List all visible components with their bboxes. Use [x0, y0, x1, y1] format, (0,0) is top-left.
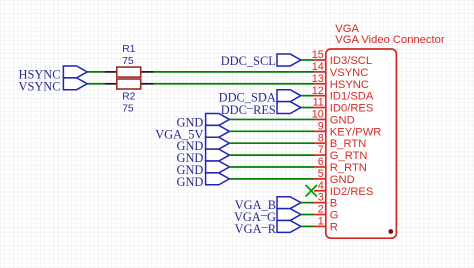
- svg-text:VSYNC: VSYNC: [330, 67, 369, 79]
- connector body (VGA video connector): [326, 49, 397, 238]
- svg-text:KEY/PWR: KEY/PWR: [330, 126, 382, 138]
- wire VGA_R to pin 1: [301, 225, 314, 227]
- port VGA_5V pin9: [206, 125, 230, 137]
- svg-text:75: 75: [122, 103, 134, 114]
- resistor R1 leads: [105, 71, 117, 73]
- svg-text:14: 14: [312, 61, 324, 73]
- wire VGA_G to pin 2: [301, 214, 314, 216]
- svg-text:ID2/RES: ID2/RES: [330, 186, 374, 198]
- svg-text:15: 15: [312, 49, 324, 61]
- svg-text:HSYNC: HSYNC: [330, 79, 369, 91]
- svg-text:VSYNC: VSYNC: [19, 80, 61, 94]
- svg-text:GND: GND: [330, 114, 355, 126]
- port DDC_RES: [277, 102, 301, 114]
- svg-text:GND: GND: [330, 174, 355, 186]
- svg-text:2: 2: [318, 204, 324, 216]
- pin 1 R: [314, 216, 338, 234]
- wire VGA_5V port to pin 9: [229, 130, 314, 132]
- resistor R1: [117, 67, 141, 77]
- svg-text:B: B: [330, 198, 337, 210]
- wire GND port to pin 6: [229, 166, 314, 168]
- wire DDC_RES to pin 11: [301, 107, 314, 109]
- svg-text:B_RTN: B_RTN: [330, 138, 366, 150]
- port VGA_B: [277, 197, 301, 209]
- pin 15 ID3/SCL: [312, 49, 372, 67]
- svg-text:9: 9: [318, 120, 324, 132]
- svg-text:R1: R1: [122, 44, 135, 55]
- svg-text:3: 3: [318, 192, 324, 204]
- wire GND port to pin 8: [229, 142, 314, 144]
- port VSYNC: [63, 78, 87, 90]
- port VGA_R: [277, 220, 301, 232]
- svg-text:13: 13: [312, 73, 324, 85]
- svg-text:6: 6: [318, 156, 324, 168]
- svg-text:ID1/SDA: ID1/SDA: [330, 91, 374, 103]
- port VGA_G: [277, 209, 301, 221]
- pin 8 B_RTN: [314, 132, 366, 150]
- svg-text:75: 75: [122, 56, 134, 67]
- svg-text:VGA Video Connector: VGA Video Connector: [335, 34, 445, 46]
- pin 7 G_RTN: [314, 144, 368, 162]
- svg-text:DDC_SCL: DDC_SCL: [221, 54, 276, 68]
- svg-text:11: 11: [313, 97, 324, 109]
- svg-text:12: 12: [312, 85, 324, 97]
- port DDC_SDA: [277, 90, 301, 102]
- svg-text:1: 1: [318, 216, 324, 228]
- wire R2 to pin 13: [154, 83, 315, 85]
- pin 10 GND: [312, 109, 355, 127]
- svg-text:ID0/RES: ID0/RES: [330, 103, 374, 115]
- svg-text:7: 7: [318, 144, 324, 156]
- wire GND port to pin 5: [229, 178, 314, 180]
- svg-text:G: G: [330, 210, 339, 222]
- svg-text:R2: R2: [122, 91, 135, 102]
- resistor R2: [117, 79, 141, 89]
- port GND pin7: [206, 149, 230, 161]
- svg-text:G_RTN: G_RTN: [330, 150, 368, 162]
- wire VGA_B to pin 3: [301, 202, 314, 204]
- svg-text:10: 10: [312, 109, 324, 121]
- pin 3 B: [314, 192, 337, 210]
- port GND pin6: [206, 161, 230, 173]
- pin 11 ID0/RES: [313, 97, 374, 115]
- svg-text:R_RTN: R_RTN: [330, 162, 367, 174]
- svg-text:8: 8: [318, 132, 324, 144]
- wire HSYNC port to R1: [87, 71, 105, 73]
- port GND pin5: [206, 173, 230, 185]
- resistor R2 leads: [105, 83, 117, 85]
- wire R1 to pin 14: [154, 71, 315, 73]
- red dot marker: [388, 229, 393, 234]
- pin 14 VSYNC: [312, 61, 369, 79]
- pin 4 ID2/RES: [314, 180, 373, 198]
- pin 6 R_RTN: [314, 156, 367, 174]
- wire GND port to pin 10: [229, 118, 314, 120]
- svg-text:4: 4: [318, 180, 324, 192]
- wire VSYNC port to R2: [87, 83, 105, 85]
- no-connect X (pin 4): [306, 185, 317, 196]
- port GND pin8: [206, 137, 230, 149]
- pin 5 GND: [314, 168, 355, 186]
- pin 13 HSYNC: [312, 73, 369, 91]
- svg-text:5: 5: [318, 168, 324, 180]
- wire DDC_SDA to pin 12: [301, 95, 314, 97]
- wire GND port to pin 7: [229, 154, 314, 156]
- pin 9 KEY/PWR: [314, 120, 381, 138]
- wire DDC_SCL to pin 15: [301, 59, 314, 61]
- port DDC_SCL: [277, 54, 301, 66]
- svg-text:ID3/SCL: ID3/SCL: [330, 55, 372, 67]
- svg-text:R: R: [330, 221, 338, 233]
- pin 12 ID1/SDA: [312, 85, 374, 103]
- port HSYNC: [63, 66, 87, 78]
- port GND pin10: [206, 113, 230, 125]
- pin 2 G: [314, 204, 339, 222]
- svg-text:GND: GND: [177, 175, 204, 189]
